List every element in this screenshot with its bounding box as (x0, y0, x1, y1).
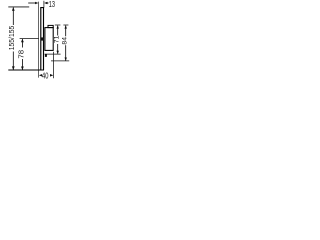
dimension 71 line bottom segment (57, 44, 59, 54)
svg-text:71: 71 (54, 35, 61, 43)
knob front extension line (52, 52, 54, 78)
valve spindle section (40, 37, 44, 40)
dimension 84 top arrow (65, 25, 67, 28)
40 dim left arrow (points left at wall ext) (39, 74, 42, 77)
dimension 71 top arrow (57, 25, 59, 28)
dimension 155/155 line bottom segment (12, 52, 14, 70)
bottom extension line (plate bottom) (8, 69, 44, 71)
plate front extension line above (43, 1, 45, 8)
knob body (45, 28, 53, 51)
knob top tick A (55, 24, 61, 26)
top extension line (plate top, left) (8, 6, 29, 8)
svg-text:155/155: 155/155 (7, 26, 16, 51)
13 dim right leader line (46, 2, 48, 4)
dimension 84 line bottom segment (65, 45, 67, 60)
dimension 71 line top segment (57, 26, 59, 36)
dimension 78 bottom arrow (21, 67, 24, 71)
13 dim left leader line (28, 2, 36, 4)
wall extension below for 40 dim (38, 70, 40, 77)
dimension 78 top arrow (21, 39, 24, 43)
knob top tick B (63, 24, 68, 26)
small tab below knob (45, 54, 47, 57)
40 dim right arrow (points right at knob ext) (50, 74, 53, 77)
dimension 155/155 top arrow (12, 7, 15, 11)
svg-text:78: 78 (16, 50, 25, 59)
axis extension line (78 dim top ref) (20, 38, 39, 40)
knob top tab (48, 25, 53, 27)
ext line at y54 (dim 71 bottom ref) (45, 53, 61, 55)
13 dim right arrow (points left at plate front ext) (44, 2, 47, 5)
dimension 155/155 line top segment (12, 7, 14, 25)
wall line (38, 2, 40, 71)
dimension 71 bottom arrow (57, 51, 59, 54)
trim plate outline (41, 8, 44, 70)
dimension 78 line bottom segment (21, 59, 23, 70)
dimension 78 line top segment (21, 39, 23, 48)
dimension 84 line top segment (65, 26, 67, 37)
svg-text:40: 40 (42, 71, 49, 80)
dimension 155/155 bottom arrow (12, 66, 15, 70)
svg-text:13: 13 (49, 0, 55, 9)
ext line at y60.8 (dim 84 bottom ref) (51, 60, 69, 62)
13 dim left arrow (points right at wall) (35, 2, 38, 5)
dimension 84 bottom arrow (65, 58, 67, 61)
svg-text:84: 84 (62, 37, 69, 45)
